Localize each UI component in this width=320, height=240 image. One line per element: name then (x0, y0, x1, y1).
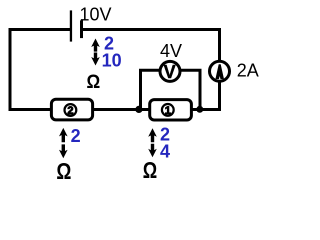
svg-text:2: 2 (67, 105, 73, 117)
svg-text:2A: 2A (237, 61, 259, 81)
svg-text:Ω: Ω (143, 158, 157, 180)
svg-text:1: 1 (165, 105, 171, 117)
svg-text:Ω: Ω (56, 159, 71, 180)
svg-text:10: 10 (102, 50, 122, 70)
svg-text:2: 2 (71, 126, 81, 146)
svg-text:10V: 10V (80, 5, 112, 25)
svg-text:V: V (164, 62, 176, 82)
svg-text:4: 4 (160, 141, 170, 161)
svg-text:4V: 4V (160, 41, 182, 61)
svg-text:Ω: Ω (87, 70, 101, 92)
